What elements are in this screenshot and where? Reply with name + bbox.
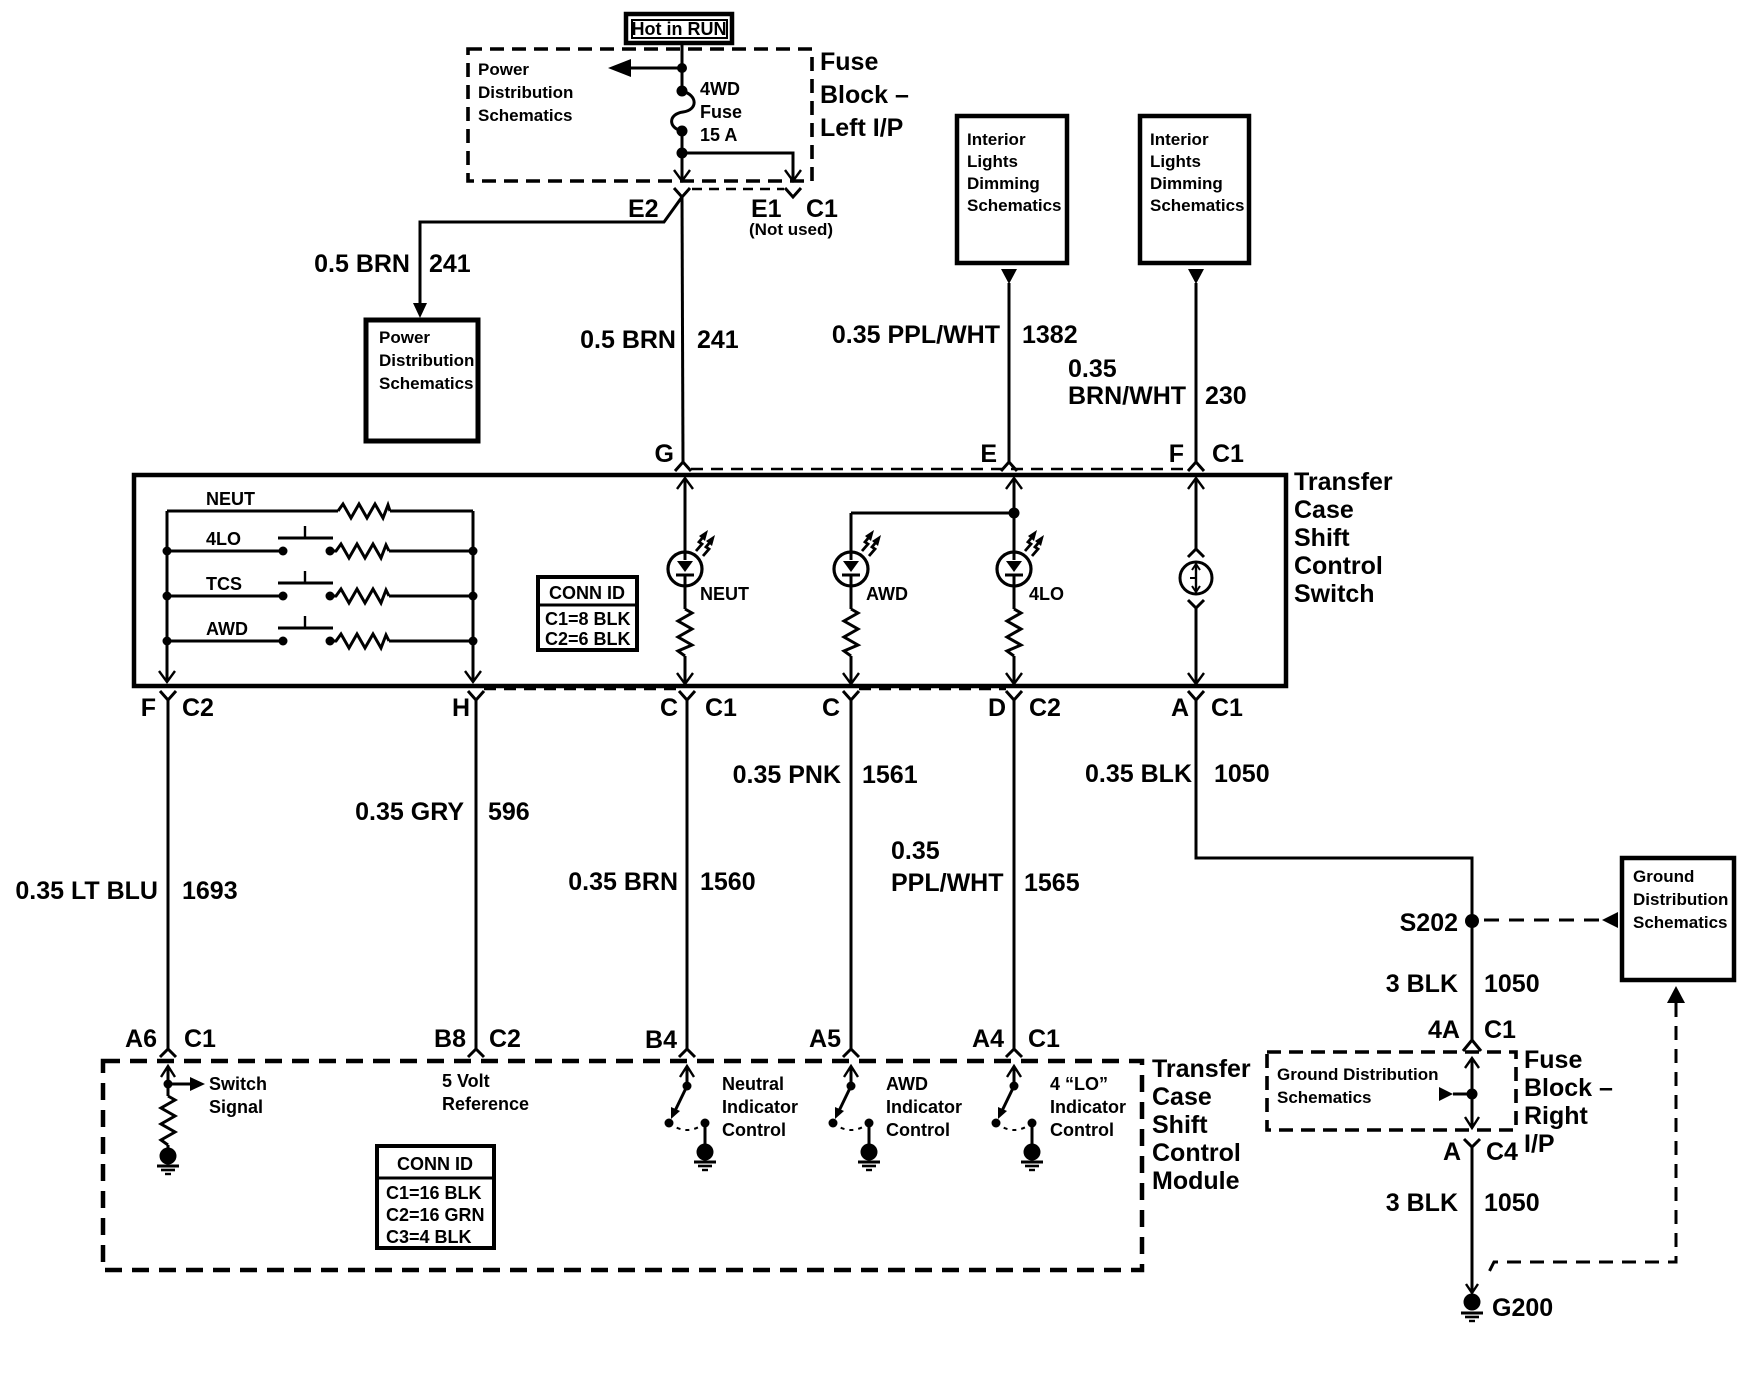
Fuse Block - Left I/P dashed box xyxy=(468,49,812,181)
svg-text:Distribution: Distribution xyxy=(379,351,474,370)
connector C (C1) xyxy=(679,691,695,700)
svg-text:C2: C2 xyxy=(182,694,214,722)
svg-text:1561: 1561 xyxy=(862,761,918,789)
CONN ID table (switch) xyxy=(538,577,637,650)
dashed connector line E2-E1 xyxy=(692,188,784,190)
arrow into E1 terminal xyxy=(785,170,801,181)
svg-text:Reference: Reference xyxy=(442,1094,529,1114)
svg-text:NEUT: NEUT xyxy=(700,584,749,604)
svg-text:S202: S202 xyxy=(1400,909,1458,937)
dashed connector line C1 (top of switch) xyxy=(691,468,1188,471)
svg-text:Transfer: Transfer xyxy=(1152,1055,1251,1083)
Ground Distribution Schematics reference (in fuse block) xyxy=(1277,1065,1438,1107)
node: ground distribution tap xyxy=(1439,1087,1478,1101)
svg-text:C1: C1 xyxy=(1484,1016,1516,1044)
arrow from interior lights box (left) xyxy=(1001,269,1017,284)
Fuse Block - Left I/P title xyxy=(820,48,909,142)
svg-text:Indicator: Indicator xyxy=(722,1097,798,1117)
svg-text:F: F xyxy=(1169,440,1184,468)
Fuse Block - Right I/P title xyxy=(1524,1046,1613,1158)
wire through right fuse block xyxy=(1465,1058,1479,1128)
svg-text:Switch: Switch xyxy=(1294,580,1375,608)
svg-text:C1=16 BLK: C1=16 BLK xyxy=(386,1183,482,1203)
svg-text:BRN/WHT: BRN/WHT xyxy=(1068,382,1186,410)
svg-text:Control: Control xyxy=(1050,1120,1114,1140)
svg-text:C4: C4 xyxy=(1486,1138,1518,1166)
svg-text:241: 241 xyxy=(429,250,471,278)
svg-text:1382: 1382 xyxy=(1022,321,1078,349)
right bus wire (to pin H) xyxy=(472,511,475,682)
svg-text:1560: 1560 xyxy=(700,868,756,896)
svg-text:Transfer: Transfer xyxy=(1294,468,1393,496)
svg-text:0.35: 0.35 xyxy=(891,837,940,865)
connector B4 xyxy=(679,1049,695,1057)
neutral indicator driver switch xyxy=(665,1066,717,1170)
Fuse Block - Right I/P dashed box xyxy=(1267,1052,1516,1130)
svg-text:Case: Case xyxy=(1294,496,1354,524)
4LO indicator LED column (pin E to pin D) xyxy=(997,478,1044,684)
svg-text:4A: 4A xyxy=(1428,1016,1460,1044)
wire label 0.35 GRY 596 xyxy=(355,798,530,826)
svg-text:I/P: I/P xyxy=(1524,1130,1555,1158)
wire below fuse xyxy=(681,131,684,179)
svg-text:Hot in RUN: Hot in RUN xyxy=(632,19,727,39)
svg-text:C2=16 GRN: C2=16 GRN xyxy=(386,1205,485,1225)
Neutral Indicator Control label xyxy=(722,1074,798,1140)
connector A (C1) xyxy=(1188,691,1204,700)
connector G (C1) xyxy=(675,462,691,471)
wire from Hot in RUN down to fuse xyxy=(681,43,684,91)
illumination lamp column (pin F to pin A) xyxy=(1180,478,1212,684)
AWD indicator LED column (to pin C) xyxy=(834,513,881,684)
svg-text:A: A xyxy=(1171,694,1189,722)
connector E (C1) xyxy=(1001,462,1017,471)
svg-text:0.35 LT BLU: 0.35 LT BLU xyxy=(15,877,158,905)
svg-text:1050: 1050 xyxy=(1484,970,1540,998)
svg-text:D: D xyxy=(988,694,1006,722)
4 LO Indicator Control label xyxy=(1050,1074,1126,1140)
svg-text:Indicator: Indicator xyxy=(1050,1097,1126,1117)
svg-text:F: F xyxy=(141,694,156,722)
4LO indicator driver switch xyxy=(992,1066,1044,1170)
svg-text:Dimming: Dimming xyxy=(967,174,1040,193)
svg-text:B8: B8 xyxy=(434,1025,466,1053)
svg-text:Interior: Interior xyxy=(967,130,1026,149)
svg-text:Lights: Lights xyxy=(967,152,1018,171)
svg-text:Signal: Signal xyxy=(209,1097,263,1117)
svg-text:Schematics: Schematics xyxy=(1150,196,1245,215)
NEUT position row xyxy=(167,489,473,518)
TCS switch row xyxy=(163,571,478,603)
svg-text:596: 596 xyxy=(488,798,530,826)
arrow into E2 terminal xyxy=(674,170,690,181)
svg-text:CONN ID: CONN ID xyxy=(397,1154,473,1174)
svg-text:A6: A6 xyxy=(125,1025,157,1053)
svg-text:C1: C1 xyxy=(184,1025,216,1053)
svg-text:Control: Control xyxy=(1294,552,1383,580)
5 Volt Reference label xyxy=(442,1071,529,1114)
Transfer Case Shift Control Module title xyxy=(1152,1055,1251,1195)
svg-text:Control: Control xyxy=(1152,1139,1241,1167)
dashed connector line H-C xyxy=(484,688,679,691)
link wire AWD lamp to 4LO column node xyxy=(851,512,1014,515)
svg-text:C1=8 BLK: C1=8 BLK xyxy=(545,609,631,629)
svg-text:0.35 PNK: 0.35 PNK xyxy=(733,761,841,789)
svg-text:Shift: Shift xyxy=(1294,524,1350,552)
connector A5 xyxy=(843,1049,859,1057)
AWD switch row xyxy=(163,616,478,648)
Power Distribution Schematics reference text (in fuse block) xyxy=(478,60,573,125)
Ground Distribution Schematics box xyxy=(1622,858,1734,980)
wire to ground G200 xyxy=(1471,1147,1474,1293)
connector A (C4) xyxy=(1464,1139,1480,1147)
connector A6 (C1) xyxy=(160,1049,176,1057)
connector C (second) xyxy=(843,691,859,700)
wire label 0.35 BLK 1050 xyxy=(1085,760,1270,788)
svg-text:Shift: Shift xyxy=(1152,1111,1208,1139)
wire down to switch pin F xyxy=(1195,283,1198,462)
wire label 0.35 PPL/WHT 1382 xyxy=(832,321,1078,349)
svg-text:Case: Case xyxy=(1152,1083,1212,1111)
svg-text:4WD: 4WD xyxy=(700,79,740,99)
svg-text:Schematics: Schematics xyxy=(1633,913,1728,932)
dashed reference wire to G200 xyxy=(1486,1003,1676,1278)
wire label 0.35 BRN/WHT 230 xyxy=(1068,355,1247,410)
Interior Lights Dimming Schematics box (right) xyxy=(1140,116,1249,263)
svg-text:Switch: Switch xyxy=(209,1074,267,1094)
svg-text:Fuse: Fuse xyxy=(820,48,878,76)
svg-text:Schematics: Schematics xyxy=(1277,1088,1372,1107)
svg-text:C2: C2 xyxy=(489,1025,521,1053)
svg-text:0.35 BLK: 0.35 BLK xyxy=(1085,760,1192,788)
svg-text:C: C xyxy=(660,694,678,722)
svg-text:3 BLK: 3 BLK xyxy=(1386,970,1458,998)
svg-text:(Not used): (Not used) xyxy=(749,220,833,239)
svg-text:Power: Power xyxy=(478,60,529,79)
Transfer Case Shift Control Module dashed box xyxy=(103,1061,1142,1270)
Interior Lights Dimming Schematics box (left) xyxy=(957,116,1067,263)
svg-text:Right: Right xyxy=(1524,1102,1589,1130)
wire label 3 BLK 1050 (upper) xyxy=(1386,970,1540,998)
svg-text:Ground: Ground xyxy=(1633,867,1694,886)
wire label 0.35 BRN 1560 xyxy=(568,868,755,896)
connector A4 (C1) xyxy=(1006,1049,1022,1057)
svg-text:G: G xyxy=(655,440,674,468)
Hot in RUN power label box xyxy=(626,14,732,43)
svg-text:AWD: AWD xyxy=(206,619,248,639)
wire C to A5 (awd indicator) xyxy=(850,700,853,1049)
svg-text:1050: 1050 xyxy=(1214,760,1270,788)
svg-text:E: E xyxy=(980,440,997,468)
svg-text:Lights: Lights xyxy=(1150,152,1201,171)
wire label 3 BLK 1050 (lower) xyxy=(1386,1189,1540,1217)
wire label 0.35 PNK 1561 xyxy=(733,761,918,789)
node: branch to E1 xyxy=(677,148,688,159)
wire F to A6 (switch signal) xyxy=(167,700,170,1049)
svg-text:TCS: TCS xyxy=(206,574,242,594)
svg-text:Control: Control xyxy=(722,1120,786,1140)
svg-text:C1: C1 xyxy=(705,694,737,722)
arrow from interior lights box (right) xyxy=(1188,269,1204,284)
svg-text:Control: Control xyxy=(886,1120,950,1140)
svg-text:241: 241 xyxy=(697,326,739,354)
pull-up resistor (A6) xyxy=(161,1096,175,1145)
connector D (C2) xyxy=(1006,691,1022,700)
wire C to B4 (neutral indicator) xyxy=(686,700,689,1049)
svg-text:0.35 PPL/WHT: 0.35 PPL/WHT xyxy=(832,321,1000,349)
wire branch to E1 xyxy=(682,153,793,179)
svg-text:Schematics: Schematics xyxy=(967,196,1062,215)
svg-text:Left I/P: Left I/P xyxy=(820,114,903,142)
svg-text:5 Volt: 5 Volt xyxy=(442,1071,490,1091)
svg-text:0.5 BRN: 0.5 BRN xyxy=(580,326,676,354)
svg-text:C1: C1 xyxy=(1211,694,1243,722)
svg-text:15 A: 15 A xyxy=(700,125,737,145)
connector F (C2 bottom) xyxy=(160,691,176,700)
svg-text:Ground Distribution: Ground Distribution xyxy=(1277,1065,1438,1084)
connector 4A (C1) xyxy=(1463,1040,1481,1051)
left bus wire (to pin F) xyxy=(166,511,169,682)
internal ground (A6) xyxy=(157,1145,179,1174)
connector E1 (not used) xyxy=(785,188,801,197)
connector F (C1) xyxy=(1188,462,1204,471)
svg-text:PPL/WHT: PPL/WHT xyxy=(891,869,1004,897)
wire D to A4 (4LO indicator) xyxy=(1013,700,1016,1049)
Transfer Case Shift Control Switch title xyxy=(1294,468,1393,608)
svg-text:Interior: Interior xyxy=(1150,130,1209,149)
svg-text:C: C xyxy=(822,694,840,722)
svg-text:C3=4 BLK: C3=4 BLK xyxy=(386,1227,472,1247)
svg-text:Indicator: Indicator xyxy=(886,1097,962,1117)
Transfer Case Shift Control Switch box xyxy=(134,475,1286,686)
wire label 0.5 BRN 241 (G column) xyxy=(580,326,739,354)
wire label 0.35 LT BLU 1693 xyxy=(15,877,237,905)
svg-text:Block –: Block – xyxy=(820,81,909,109)
svg-text:Block –: Block – xyxy=(1524,1074,1613,1102)
wire A to S202 xyxy=(1196,700,1472,1040)
svg-text:Schematics: Schematics xyxy=(478,106,573,125)
svg-text:C2=6 BLK: C2=6 BLK xyxy=(545,629,631,649)
wire label 0.5 BRN 241 (left) xyxy=(314,250,471,278)
node: tap to Power Distribution (arrow left) xyxy=(608,59,687,77)
svg-text:0.5 BRN: 0.5 BRN xyxy=(314,250,410,278)
svg-text:AWD: AWD xyxy=(866,584,908,604)
svg-text:Distribution: Distribution xyxy=(1633,890,1728,909)
arrow to pin F xyxy=(159,671,175,682)
svg-text:1050: 1050 xyxy=(1484,1189,1540,1217)
svg-text:A5: A5 xyxy=(809,1025,841,1053)
wire label 0.35 PPL/WHT 1565 xyxy=(891,837,1080,897)
svg-text:Schematics: Schematics xyxy=(379,374,474,393)
ground G200 xyxy=(1461,1284,1483,1321)
svg-text:AWD: AWD xyxy=(886,1074,928,1094)
svg-text:Distribution: Distribution xyxy=(478,83,573,102)
svg-text:C2: C2 xyxy=(1029,694,1061,722)
svg-text:Neutral: Neutral xyxy=(722,1074,784,1094)
arrow to pin H xyxy=(465,671,481,682)
dashed connector line C-D xyxy=(859,688,1006,691)
svg-text:CONN ID: CONN ID xyxy=(549,583,625,603)
svg-text:0.35: 0.35 xyxy=(1068,355,1117,383)
svg-text:4LO: 4LO xyxy=(1029,584,1064,604)
svg-text:C1: C1 xyxy=(1028,1025,1060,1053)
svg-text:0.35 GRY: 0.35 GRY xyxy=(355,798,464,826)
wire down to switch pin E xyxy=(1008,283,1011,462)
svg-text:G200: G200 xyxy=(1492,1294,1553,1322)
svg-text:Module: Module xyxy=(1152,1167,1240,1195)
fuse 4WD Fuse 15 A xyxy=(672,86,695,137)
svg-text:NEUT: NEUT xyxy=(206,489,255,509)
Switch Signal label xyxy=(209,1074,267,1117)
svg-text:B4: B4 xyxy=(645,1026,677,1054)
4LO switch row xyxy=(163,526,478,558)
svg-text:A: A xyxy=(1443,1138,1461,1166)
svg-text:Power: Power xyxy=(379,328,430,347)
svg-text:Fuse: Fuse xyxy=(1524,1046,1582,1074)
wire H to B8 (5 volt reference) xyxy=(475,700,478,1049)
fuse value label xyxy=(700,79,742,145)
svg-text:A4: A4 xyxy=(972,1025,1004,1053)
svg-text:Dimming: Dimming xyxy=(1150,174,1223,193)
svg-text:0.35 BRN: 0.35 BRN xyxy=(568,868,678,896)
svg-text:1693: 1693 xyxy=(182,877,238,905)
Power Distribution Schematics box xyxy=(366,320,478,441)
NEUT indicator LED column (pin G to pin C) xyxy=(668,478,715,684)
svg-text:4LO: 4LO xyxy=(206,529,241,549)
svg-text:Fuse: Fuse xyxy=(700,102,742,122)
svg-text:C1: C1 xyxy=(806,195,838,223)
connector B8 (C2) xyxy=(468,1049,484,1057)
svg-text:1565: 1565 xyxy=(1024,869,1080,897)
switch signal input circuit xyxy=(161,1066,205,1096)
svg-text:E1: E1 xyxy=(751,195,782,223)
AWD Indicator Control label xyxy=(886,1074,962,1140)
svg-text:E2: E2 xyxy=(628,195,659,223)
CONN ID table (module) xyxy=(377,1146,494,1248)
connector E2 (fuse block C1) xyxy=(674,188,690,197)
wire E2 down to switch pin G xyxy=(682,197,683,462)
svg-text:4 “LO”: 4 “LO” xyxy=(1050,1074,1108,1094)
svg-text:3 BLK: 3 BLK xyxy=(1386,1189,1458,1217)
wire E2 branch to Power Distribution Schematics xyxy=(413,197,682,318)
arrow from ground distribution box xyxy=(1667,986,1685,1003)
connector H xyxy=(468,691,484,700)
splice S202 xyxy=(1465,914,1479,928)
svg-text:230: 230 xyxy=(1205,382,1247,410)
svg-text:C1: C1 xyxy=(1212,440,1244,468)
awd indicator driver switch xyxy=(829,1066,881,1170)
dashed reference wire S202 to ground distribution xyxy=(1484,912,1618,928)
svg-text:H: H xyxy=(452,694,470,722)
